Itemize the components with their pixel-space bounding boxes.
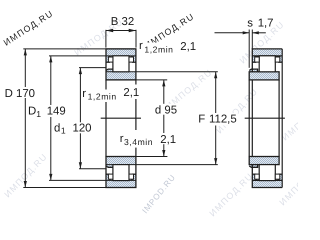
svg-text:1,2min: 1,2min: [88, 92, 117, 102]
svg-text:1,7: 1,7: [258, 17, 274, 29]
svg-text:d: d: [155, 105, 161, 117]
svg-text:F: F: [198, 114, 205, 126]
svg-text:2,1: 2,1: [180, 41, 196, 53]
svg-text:D 170: D 170: [5, 88, 35, 100]
svg-text:s: s: [247, 17, 253, 29]
svg-text:2,1: 2,1: [123, 87, 139, 99]
svg-text:1,2min: 1,2min: [144, 44, 173, 54]
svg-text:120: 120: [73, 123, 92, 135]
svg-text:2,1: 2,1: [160, 134, 176, 146]
svg-text:95: 95: [164, 105, 177, 117]
svg-text:149: 149: [47, 105, 66, 117]
svg-text:D: D: [28, 105, 36, 117]
svg-text:B 32: B 32: [111, 16, 134, 28]
svg-text:r: r: [139, 40, 143, 52]
svg-text:1: 1: [36, 109, 41, 119]
svg-text:3,4min: 3,4min: [124, 137, 153, 147]
svg-text:1: 1: [61, 125, 66, 135]
svg-text:r: r: [82, 88, 86, 100]
svg-text:112,5: 112,5: [209, 114, 237, 126]
svg-text:d: d: [54, 123, 60, 135]
